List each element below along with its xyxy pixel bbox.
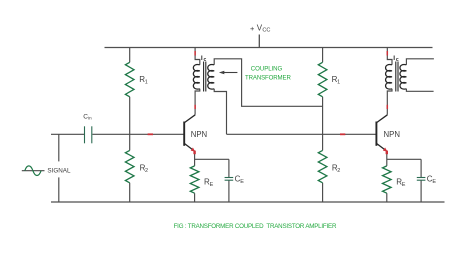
svg-text:c: c — [204, 57, 207, 63]
svg-text:E: E — [432, 179, 436, 185]
svg-text:E: E — [210, 182, 214, 188]
svg-text:1: 1 — [145, 80, 148, 86]
svg-text:TRANSFORMER: TRANSFORMER — [245, 75, 291, 82]
svg-text:2: 2 — [337, 168, 340, 174]
svg-text:2: 2 — [145, 168, 148, 174]
svg-text:NPN: NPN — [384, 130, 400, 139]
svg-text:E: E — [402, 182, 406, 188]
svg-text:NPN: NPN — [191, 130, 207, 139]
svg-text:1: 1 — [337, 80, 340, 86]
svg-text:E: E — [240, 179, 244, 185]
svg-text:FIG : TRANSFORMER COUPLED TRA: FIG : TRANSFORMER COUPLED TRANSISTOR AMP… — [174, 223, 337, 230]
svg-text:+: + — [250, 24, 255, 33]
svg-text:SIGNAL: SIGNAL — [47, 168, 71, 175]
svg-text:CC: CC — [262, 28, 270, 34]
svg-text:in: in — [88, 116, 92, 121]
svg-text:c: c — [396, 57, 399, 63]
svg-text:COUPLING: COUPLING — [251, 65, 283, 72]
